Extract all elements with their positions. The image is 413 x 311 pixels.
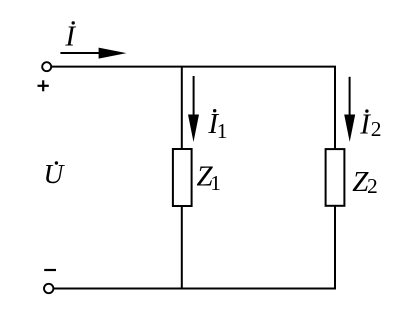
svg-text:1: 1	[217, 119, 228, 143]
svg-text:1: 1	[210, 171, 221, 195]
svg-text:I: I	[64, 20, 76, 52]
svg-text:2: 2	[367, 174, 378, 198]
svg-text:2: 2	[371, 117, 382, 141]
svg-text:I: I	[359, 109, 371, 141]
svg-text:U: U	[44, 158, 66, 189]
